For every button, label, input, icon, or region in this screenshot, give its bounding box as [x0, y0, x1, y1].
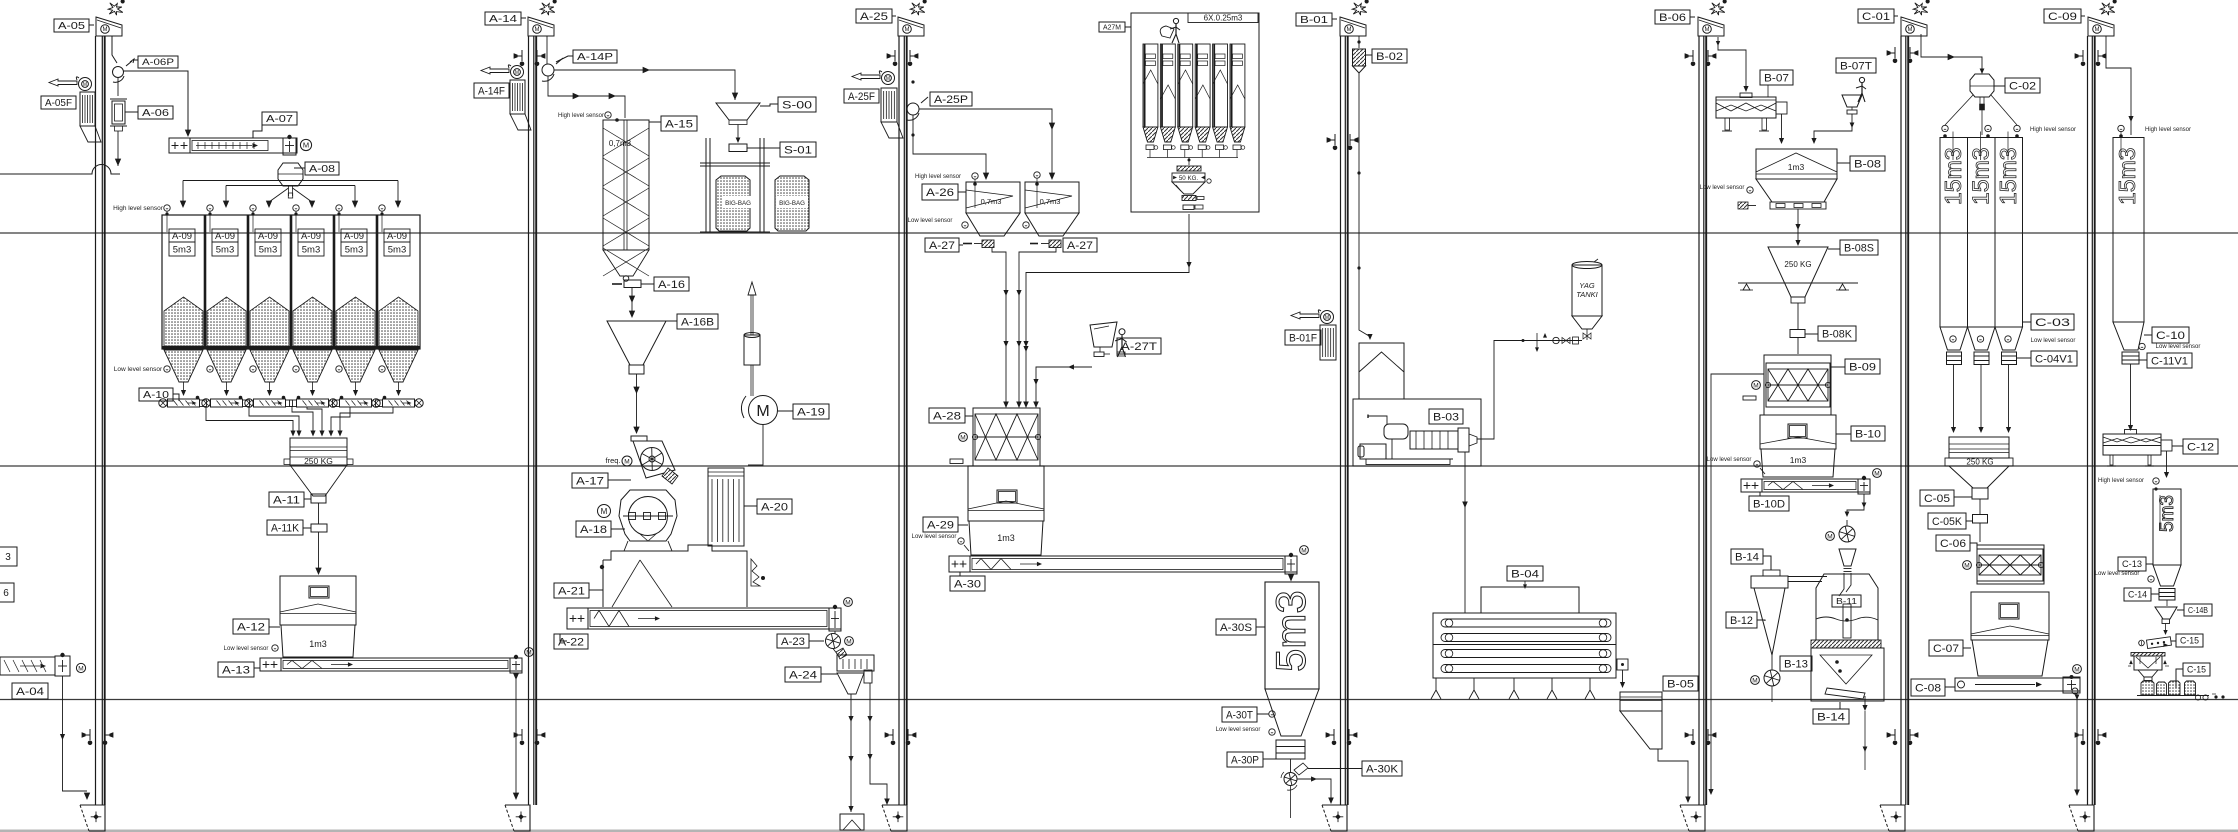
worker at A27M — [1173, 18, 1178, 23]
label box A-05 — [54, 19, 89, 32]
label box B-13 — [1780, 656, 1812, 671]
mill motor A-18 — [598, 505, 611, 518]
air nozzles C-09 bottom — [2082, 729, 2084, 740]
label box A-25F — [844, 89, 879, 103]
label box A-15 — [661, 116, 697, 131]
svg-text:C-01: C-01 — [1862, 11, 1890, 23]
svg-text:B-11: B-11 — [1836, 596, 1857, 606]
aspiration fan B-01F — [1321, 311, 1334, 324]
outlet stack C-14 — [2159, 589, 2175, 593]
silo A-30S cone — [1265, 689, 1319, 736]
wire B-08 to B-08S — [1797, 209, 1799, 242]
silo outlet 1 — [183, 382, 185, 390]
svg-text:M: M — [2095, 27, 2100, 33]
filter A-05F — [80, 92, 95, 126]
label box C-01 — [1858, 9, 1894, 23]
elevator head B-01 — [1340, 17, 1366, 36]
level stem C #1 — [1952, 132, 1954, 161]
leader A-30S — [1256, 626, 1265, 628]
leader A-11 — [304, 498, 311, 500]
feed funnel to B-11 — [1839, 549, 1856, 566]
svg-text:B-06: B-06 — [1659, 12, 1686, 24]
bag placer C-15 — [2146, 637, 2171, 649]
label box A27M — [1099, 22, 1125, 32]
label box B-12 — [1726, 612, 1757, 628]
valve motor — [1826, 532, 1835, 541]
screw feeder A-10 #2 — [211, 399, 243, 407]
svg-text:BIG-BAG: BIG-BAG — [779, 200, 805, 207]
svg-text:B-12: B-12 — [1730, 615, 1753, 627]
air nozzles A-14 top — [521, 50, 523, 61]
svg-text:250 KG: 250 KG — [1784, 260, 1811, 269]
slide under B-09 — [1743, 396, 1756, 400]
silo bank hopper band — [162, 346, 420, 349]
leader B-10D — [1759, 492, 1761, 496]
svg-text:A-30K: A-30K — [1366, 763, 1399, 775]
slide A27M — [1183, 205, 1194, 210]
svg-text:A-16: A-16 — [658, 279, 685, 291]
label box A-09 #2 — [212, 229, 238, 242]
hopper A-26 left — [966, 182, 1020, 213]
high level sensors C silos — [1942, 125, 1948, 131]
leader A-28 — [965, 415, 973, 417]
bagging frame S-01 — [705, 138, 707, 232]
label box A-14P — [573, 50, 617, 63]
svg-text:M: M — [1752, 677, 1757, 684]
low level sensor C #2 — [1977, 336, 1983, 342]
leader B-12 — [1757, 620, 1765, 621]
silo A-09 #4 hopper cone — [293, 350, 332, 382]
wire A-16 to funnel A-16B — [631, 288, 633, 313]
label box S-00 — [778, 97, 816, 112]
leader S-01 — [747, 147, 780, 149]
wire head B-01 to B-02 — [1358, 36, 1360, 48]
svg-text:A-27T: A-27T — [1121, 341, 1157, 353]
leader A-29 — [958, 524, 968, 526]
label box A-27 — [1063, 238, 1097, 252]
wire press B-03 to cooler B-04 — [1464, 452, 1466, 613]
svg-text:S-01: S-01 — [784, 144, 812, 156]
slide S-01 — [729, 144, 747, 152]
elevator boot A-14 — [505, 805, 530, 831]
leader A-12 — [269, 626, 280, 628]
leader B-04 — [1524, 581, 1526, 587]
weigh beam B-08S — [1738, 282, 1858, 284]
low level sensor silo 2 — [207, 366, 213, 372]
label box A-30 — [950, 576, 985, 591]
mixer bin A-12 — [280, 576, 356, 625]
svg-text:A-20: A-20 — [761, 501, 788, 513]
svg-text:M: M — [303, 141, 309, 150]
label box A-28 — [929, 408, 965, 423]
filter A-20 — [708, 468, 744, 546]
filter A-25F — [881, 88, 897, 122]
air nozzles A-25 bottom — [892, 729, 894, 740]
leader B-02 — [1366, 54, 1373, 56]
leader A-16B — [666, 320, 677, 322]
fan A-19 — [741, 396, 746, 418]
weigh hopper B-08S — [1768, 247, 1828, 297]
purifier C-12 — [2103, 434, 2161, 446]
label box A-17 — [572, 473, 608, 488]
wire A-30 to silo A-30S — [1290, 574, 1292, 578]
svg-text:6X.0.25m3: 6X.0.25m3 — [1204, 14, 1243, 23]
svg-text:C-12: C-12 — [2187, 441, 2214, 453]
label box C-05K — [1928, 513, 1966, 529]
svg-text:TANKI: TANKI — [1576, 290, 1598, 299]
silo C #3 outlet stack — [2002, 352, 2017, 356]
svg-text:B-07: B-07 — [1764, 72, 1789, 84]
leader A-30 — [959, 572, 961, 576]
svg-text:B-01F: B-01F — [1289, 332, 1317, 344]
leader C-05 — [1954, 496, 1972, 498]
svg-text:M: M — [756, 403, 769, 420]
wire C-08 to boot C-09 — [2076, 693, 2078, 791]
svg-text:M: M — [2074, 666, 2079, 673]
label box A-07 — [262, 112, 297, 125]
svg-text:250 KG: 250 KG — [1966, 458, 1993, 467]
svg-text:C-09: C-09 — [2048, 11, 2077, 23]
scale 50 KG A27M — [1177, 166, 1201, 171]
svg-text:Low level sensor: Low level sensor — [1707, 457, 1752, 463]
bin B-10 — [1760, 415, 1836, 449]
screw conveyor A-13 — [260, 658, 522, 671]
label box A-20 — [757, 499, 792, 514]
svg-text:C-15: C-15 — [2180, 636, 2199, 646]
svg-text:3: 3 — [5, 552, 11, 563]
leader A-23 — [809, 640, 824, 642]
svg-text:250 KG: 250 KG — [304, 456, 333, 466]
air nozzles C-01 top — [1894, 47, 1896, 58]
label box C-15 — [2176, 634, 2203, 647]
svg-text:A-27: A-27 — [929, 240, 955, 252]
hopper B-08 — [1756, 149, 1837, 179]
low level sensor B-10 — [1754, 461, 1760, 467]
svg-text:A-13: A-13 — [222, 664, 250, 676]
label box A-09 #6 — [384, 229, 410, 242]
leader C-04V1 — [2016, 357, 2031, 359]
wire B-10D to valve — [1847, 494, 1864, 513]
svg-text:C-03: C-03 — [2035, 317, 2070, 329]
svg-text:A-25: A-25 — [860, 11, 888, 23]
leader A-19 — [777, 410, 793, 412]
svg-text:0,7m3: 0,7m3 — [609, 139, 632, 148]
micro silo gate 2 — [1163, 145, 1171, 150]
screw conveyor A-22 — [567, 608, 841, 629]
svg-text:A-04: A-04 — [16, 686, 44, 698]
cooler outlet B-04 — [1617, 659, 1628, 670]
valve motor B-13 — [1751, 676, 1760, 685]
svg-text:B-08K: B-08K — [1822, 328, 1853, 340]
svg-text:M: M — [526, 649, 531, 656]
silo outlet 2 — [226, 382, 228, 390]
slide B-08 — [1746, 205, 1756, 207]
wire B-07T to B-08 — [1814, 114, 1852, 140]
silo wall — [290, 215, 293, 349]
svg-text:A-14F: A-14F — [478, 85, 505, 97]
elevator boot C-01 — [1880, 805, 1905, 831]
svg-text:B-10: B-10 — [1855, 428, 1881, 440]
svg-text:M: M — [1874, 470, 1879, 477]
svg-text:High level sensor: High level sensor — [915, 174, 961, 180]
star wheel A-17 — [641, 448, 664, 471]
svg-text:B-05: B-05 — [1667, 678, 1694, 690]
spark on A-21 — [751, 559, 760, 586]
low level sensor silo 6 — [379, 366, 385, 372]
low level sensor B-08 — [1747, 187, 1753, 193]
label box A-10 — [139, 388, 173, 401]
air nozzles B-01 bottom — [1333, 729, 1335, 740]
svg-text:A-15: A-15 — [665, 118, 693, 130]
label box A-30S — [1216, 619, 1256, 635]
leader B-14 lower — [1839, 702, 1841, 709]
drag conveyor A-07 — [169, 138, 297, 153]
oil pipe to press — [1477, 341, 1582, 440]
manual tip B-07T — [1859, 77, 1864, 82]
funnel C-14B — [2166, 600, 2168, 606]
silo wall — [333, 215, 336, 349]
wire B-13 down — [1771, 686, 1773, 702]
wire A-27T to mixer A-28 — [1036, 367, 1092, 404]
low level sensor silo 3 — [250, 366, 256, 372]
svg-text:A-09: A-09 — [258, 231, 278, 242]
low level sensor A-12 — [272, 645, 278, 651]
slide valve A-11K — [311, 524, 327, 532]
weigh hopper 250 KG A-11 — [290, 438, 347, 465]
micro silo gate 6 — [1233, 145, 1241, 150]
funnel A-16B — [607, 321, 666, 365]
oil valve under tank — [1586, 329, 1588, 340]
label box A-27 — [925, 238, 959, 252]
rotary valve A-30K — [1284, 773, 1297, 786]
silo A-15 with lattice — [603, 120, 649, 250]
label box C-08 — [1911, 679, 1945, 696]
silo A-09 #3 material fill — [250, 297, 289, 346]
label box C-12 — [2183, 439, 2218, 454]
leader C-15 upper — [2171, 640, 2176, 642]
svg-text:M: M — [1964, 562, 1969, 569]
vibro feeder A-17 — [631, 436, 647, 441]
low level sensor A-30 — [1269, 729, 1275, 735]
title box 6X.0.25m3 — [1188, 13, 1258, 23]
label box A-16 — [654, 277, 689, 291]
svg-text:C-02: C-02 — [2009, 80, 2036, 92]
svg-text:freq.: freq. — [605, 456, 620, 465]
wire A-30P to valve — [1290, 759, 1292, 772]
diverter valve A-14P — [542, 64, 554, 76]
label box A-06P — [138, 56, 178, 68]
leader A-17 — [608, 479, 631, 481]
wire A-25P to hopper A-26 right — [919, 109, 1052, 176]
elevator boot C-09 — [2069, 805, 2094, 831]
leader C-10 — [2144, 334, 2152, 336]
svg-text:A-09: A-09 — [387, 231, 407, 242]
leader A-06 — [125, 111, 138, 113]
leader B-09 — [1831, 366, 1845, 368]
svg-text:M: M — [515, 70, 519, 76]
cyclone duct — [1788, 576, 1827, 578]
label box B-04 — [1507, 566, 1543, 581]
bag conveyor line C-15 — [2137, 695, 2209, 697]
svg-text:0,7m3: 0,7m3 — [1040, 197, 1061, 206]
screw feeder A-10 #6 — [383, 399, 415, 407]
svg-text:M: M — [1753, 382, 1758, 389]
silo A-09 #2 hopper cone — [207, 350, 246, 382]
svg-text:A-25F: A-25F — [848, 91, 875, 103]
filter A-14F — [510, 80, 525, 114]
micro silo gate 5 — [1216, 145, 1224, 150]
elevator legs C-01 — [1900, 36, 1902, 805]
svg-text:C-14: C-14 — [2128, 590, 2147, 600]
label box A-24 — [785, 667, 821, 682]
label box A-13 — [218, 662, 254, 677]
elevator boot A-05 — [80, 805, 105, 831]
svg-text:M: M — [845, 599, 850, 606]
floor line level 2 — [0, 465, 2238, 467]
svg-text:A-28: A-28 — [933, 410, 961, 422]
label box B-09 — [1845, 359, 1880, 374]
leader A-08 — [294, 167, 305, 169]
svg-text:Low level sensor: Low level sensor — [1700, 185, 1745, 191]
explosion vent spark C-01 — [1913, 3, 1928, 15]
silo C-09 cone — [2113, 322, 2144, 350]
svg-text:5m3: 5m3 — [173, 245, 191, 256]
svg-text:M: M — [1908, 27, 1913, 33]
svg-text:A-30T: A-30T — [1226, 709, 1253, 721]
explosion vent spark C-09 — [2100, 3, 2115, 15]
leader C-05K — [1966, 520, 1973, 522]
wire C-14B to bagger — [2165, 624, 2167, 633]
svg-text:C-10: C-10 — [2156, 330, 2185, 342]
leader A-24 — [821, 673, 837, 675]
wire A-24 to elevator A-25 boot — [870, 683, 887, 800]
elevator boot A-25 — [882, 805, 907, 831]
leader A-18 — [611, 528, 625, 530]
diverter valve A-06P — [113, 67, 124, 78]
mixer motor A-28 — [959, 433, 968, 442]
svg-text:A-06P: A-06P — [142, 57, 174, 67]
discharge frame B-11 — [1811, 648, 1884, 701]
silo C #1 — [1940, 138, 1968, 328]
svg-text:A-25P: A-25P — [934, 94, 968, 106]
label box A-04 — [12, 683, 48, 699]
silo A-09 #5 material fill — [336, 297, 375, 346]
chute to sieve A-24 — [833, 649, 838, 656]
leader A-21 — [589, 589, 603, 591]
aspiration fan A-25F — [882, 72, 895, 85]
svg-text:6: 6 — [3, 588, 9, 599]
svg-text:M: M — [1301, 547, 1306, 554]
screw conveyor B-10D — [1741, 479, 1870, 492]
label box A-30T — [1222, 707, 1257, 722]
leader C-11V1 — [2139, 359, 2147, 361]
explosion vent spark A-25 — [910, 3, 925, 15]
svg-text:C-11V1: C-11V1 — [2151, 355, 2188, 367]
mixer motor B-09 — [1752, 381, 1761, 390]
svg-text:A-11K: A-11K — [271, 522, 300, 534]
svg-text:A-21: A-21 — [558, 585, 585, 597]
press base B-03 — [1363, 458, 1453, 460]
sieve A-24 — [837, 655, 874, 671]
air nozzles A-05 bottom — [89, 729, 91, 740]
weigh hopper cone A-11 — [290, 465, 347, 496]
silo A-09 #6 material fill — [379, 297, 418, 346]
svg-text:A-09: A-09 — [344, 231, 364, 242]
motor C-08 — [2073, 665, 2082, 674]
svg-text:5m3: 5m3 — [216, 245, 234, 256]
label box A-05F — [41, 96, 76, 109]
floor line level 1 — [0, 232, 2238, 234]
leader B-06 — [1690, 16, 1695, 18]
leader C-03 — [2023, 321, 2032, 323]
elevator legs B-01 — [1340, 36, 1342, 805]
leader C-02 — [1994, 85, 2005, 87]
svg-text:M: M — [1827, 533, 1832, 540]
silo wall — [247, 215, 250, 349]
valve C-05K — [1973, 515, 1988, 524]
wire B-02 to bin B-03 — [1359, 73, 1369, 336]
svg-text:C-14B: C-14B — [2188, 605, 2208, 615]
svg-text:C-05K: C-05K — [1932, 516, 1963, 528]
svg-text:M: M — [601, 507, 608, 516]
leader A-26 — [958, 191, 966, 193]
leader S-00 — [760, 104, 778, 106]
funnel S-00 — [716, 103, 760, 120]
screw conveyor A-30 — [949, 556, 1297, 572]
label box A-22 — [554, 634, 588, 649]
svg-text:5m3: 5m3 — [345, 245, 363, 256]
svg-text:A-26: A-26 — [926, 187, 954, 199]
svg-text:15m3: 15m3 — [2114, 147, 2140, 205]
micro silo gate 3 — [1181, 145, 1189, 150]
svg-text:M: M — [1347, 27, 1352, 33]
svg-text:M: M — [535, 27, 540, 33]
label box C-11V1 — [2147, 353, 2192, 368]
svg-text:A-09: A-09 — [172, 231, 192, 242]
silo wall — [204, 215, 207, 349]
leader A-30K — [1308, 768, 1362, 770]
label box B-14 — [1813, 709, 1849, 724]
svg-text:A-24: A-24 — [789, 669, 817, 681]
label box B-06 — [1655, 10, 1690, 24]
low level sensor silo 5 — [336, 366, 342, 372]
hammer mill A-18 — [619, 490, 677, 541]
leader A-11K — [303, 527, 311, 529]
collection bus A27M — [1147, 157, 1238, 159]
label box B-01 — [1296, 13, 1332, 26]
wire A-25P to hopper A-26 left — [913, 115, 986, 176]
motor A-23 — [845, 637, 854, 646]
explosion vent spark A-05 — [108, 3, 123, 15]
wire A-24 to bag-off box — [850, 694, 852, 812]
leader A-30P — [1263, 758, 1276, 760]
level stem C #2 — [1980, 132, 1982, 161]
wire B-08K to mixer B-09 — [1797, 338, 1799, 355]
wire B-07 to B-08 — [1781, 114, 1783, 140]
bottom ground band — [0, 830, 2238, 832]
svg-text:A-29: A-29 — [927, 519, 954, 531]
svg-text:A-18: A-18 — [580, 524, 607, 536]
wire A-11 to A-11K — [318, 503, 320, 524]
rotary sieve B-07 — [1716, 97, 1776, 118]
label box C-13 — [2118, 557, 2146, 571]
crumbler B-05 funnel — [1620, 711, 1662, 749]
leader C-12 — [2172, 445, 2183, 447]
wire B-05 to boot B-06 — [1658, 749, 1688, 799]
label box A-16B — [677, 314, 718, 329]
aspiration fan A-14F — [511, 66, 524, 79]
high level sensor silo 2 — [207, 205, 213, 211]
